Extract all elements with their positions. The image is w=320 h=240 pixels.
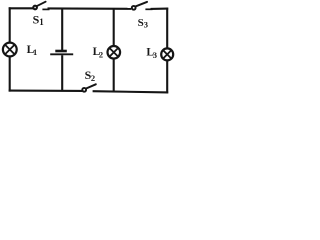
label L3 (146, 47, 157, 60)
wire left lower (9, 57, 11, 92)
switch S2 (82, 84, 96, 91)
svg-text:3: 3 (153, 50, 157, 60)
battery branch upper wire (61, 9, 63, 51)
wire top-right segment (151, 8, 169, 10)
label S2 (85, 68, 96, 83)
label S1 (33, 13, 45, 28)
lamp L3 (161, 48, 173, 60)
svg-text:2: 2 (91, 73, 95, 83)
switch S1 (33, 2, 49, 10)
wire bottom-left segment (9, 90, 83, 92)
wire top-middle segment (48, 7, 132, 10)
lamp L2 (108, 46, 121, 59)
lamp L2 branch lower wire (113, 59, 115, 92)
label S3 (138, 17, 148, 30)
lamp L1 (3, 43, 17, 57)
label L1 (27, 44, 38, 57)
svg-text:S: S (138, 17, 144, 29)
battery B1 short thick plate (55, 50, 67, 53)
wire top-left segment (9, 7, 34, 9)
wire right upper (166, 8, 168, 48)
label L2 (93, 46, 104, 59)
svg-text:2: 2 (99, 49, 103, 59)
switch S3 (132, 2, 153, 10)
battery branch lower wire (61, 55, 63, 91)
lamp L2 branch upper wire (113, 9, 115, 46)
svg-text:1: 1 (39, 17, 44, 27)
svg-text:1: 1 (33, 47, 37, 57)
wire bottom-right segment (93, 91, 169, 92)
svg-text:3: 3 (144, 20, 148, 30)
battery B1 long thin plate (50, 53, 73, 55)
wire right lower (166, 61, 168, 94)
wire left upper (9, 7, 11, 42)
